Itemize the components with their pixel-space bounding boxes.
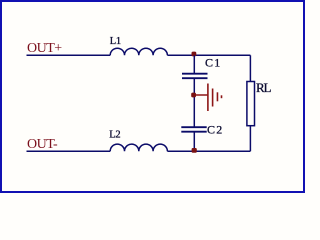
svg-text:C2: C2: [207, 123, 223, 137]
wire: [193, 78, 195, 126]
resistor RL: [247, 82, 255, 126]
wire: [167, 54, 250, 56]
svg-text:L1: L1: [110, 36, 121, 47]
label L1: [110, 36, 121, 47]
label C2: [207, 123, 223, 137]
label L2: [109, 129, 120, 140]
capacitor C2: [181, 127, 206, 132]
wire: [193, 55, 195, 73]
svg-text:L2: L2: [109, 129, 120, 140]
label RL: [256, 80, 271, 95]
junction ground node: [191, 93, 196, 98]
wire: [249, 55, 251, 81]
svg-text:C1: C1: [205, 56, 221, 70]
inductor L1: [110, 48, 167, 55]
wire: [193, 132, 195, 152]
wire: [249, 126, 251, 152]
capacitor C1: [182, 74, 208, 79]
svg-text:OUT-: OUT-: [27, 137, 58, 152]
junction bottom node: [192, 148, 197, 153]
wire: [167, 150, 250, 152]
wire: [27, 54, 111, 56]
junction top node: [192, 52, 197, 57]
svg-text:OUT+: OUT+: [27, 41, 62, 56]
net label OUT-: [27, 137, 58, 152]
ground: [196, 84, 222, 112]
inductor L2: [110, 144, 167, 151]
wire: [27, 150, 111, 152]
label C1: [205, 56, 221, 70]
svg-text:RL: RL: [256, 80, 271, 95]
net label OUT+: [27, 41, 62, 56]
